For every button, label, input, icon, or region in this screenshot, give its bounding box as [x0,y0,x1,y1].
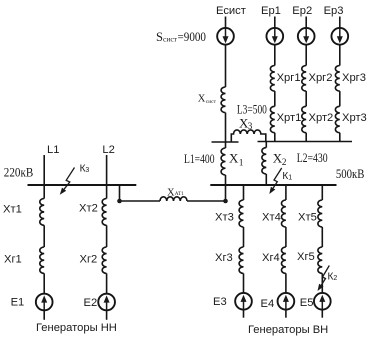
svg-text:Хрт1: Хрт1 [277,112,302,124]
svg-text:=9000: =9000 [178,30,207,44]
source Ер1 circle [266,28,283,45]
svg-text:АТ1: АТ1 [175,191,184,197]
generator Е5 circle [314,293,331,310]
wire Хсист to node [225,113,227,142]
junction dot AT left [117,199,122,204]
fault К3 lightning [64,168,74,190]
svg-text:Ер3: Ер3 [324,5,344,17]
transformer reactance Хт4 [282,200,286,227]
generator Е1 circle [36,294,53,311]
transformer reactance Хт1 [40,199,44,226]
wire AT left [120,200,161,202]
arrow in Е4 [285,300,287,309]
wire Хг3 to Е3 [243,273,245,292]
arrow in Ер2 [305,28,307,37]
transformer reactance Хт2 [102,199,106,226]
wire Хт5-Хг5 [321,227,323,247]
svg-text:сист: сист [163,35,178,44]
svg-text:К2: К2 [328,272,338,283]
wire Хт4-Хг4 [285,227,287,247]
svg-text:Ер1: Ер1 [261,5,281,17]
arrow in Е2 [106,301,108,310]
arrow in Е5 [321,300,323,309]
wire Хг5 to Е5 [321,273,323,292]
wire bus500 drop to AT [225,185,227,201]
reactor Хрт2 [302,106,306,132]
wire line L2 [106,155,108,199]
svg-text:Хт1: Хт1 [3,204,22,216]
arrow in Есист [225,28,227,37]
wire Хг1 to Е1 [43,273,45,293]
svg-text:К1: К1 [282,171,292,182]
node M (left) [212,141,239,143]
svg-text:3: 3 [248,122,253,132]
bus 220кВ [28,184,137,186]
generator Е2 circle [98,294,115,311]
svg-text:Хрг3: Хрг3 [342,72,366,84]
reactor Хрг1 [270,66,274,92]
wire X2 top [265,142,267,148]
generator reactance Хг3 [239,247,243,273]
generator Е4 circle [278,293,295,310]
svg-text:L1: L1 [47,144,59,156]
arrow in Е1 [43,301,45,310]
generator Е3 circle [235,293,252,310]
transformer reactance Хт3 [239,200,243,227]
svg-text:Хт4: Хт4 [262,212,281,224]
wire Хрг2-Хрт2 [305,91,307,106]
wire Хт1-Хг1 [43,225,45,247]
svg-text:Хрг2: Хрг2 [309,72,333,84]
svg-text:Хрт3: Хрт3 [342,112,367,124]
svg-text:Хрт2: Хрт2 [309,112,334,124]
svg-text:Ер2: Ер2 [292,5,312,17]
wire AT right [187,200,226,202]
reactor Хсист [221,87,225,113]
svg-text:Х: Х [229,151,239,166]
wire Ер3 to Хрг3 [339,45,341,66]
svg-text:2: 2 [282,158,287,168]
wire Е3 stub [243,310,245,318]
fault К1 lightning [273,168,282,188]
generator reactance Хг4 [281,247,285,273]
wire Ер1 to Хрг1 [274,45,276,66]
wire Е2 stub [106,311,108,320]
reactor X3 bridge [231,130,265,142]
wire X1 top [225,142,227,148]
wire Хрт2 to node [305,133,307,142]
node N (right) [258,141,353,143]
svg-text:Хт5: Хт5 [298,212,317,224]
generator reactance Хг2 [102,247,106,273]
wire Ер2 to Хрг2 [305,45,307,66]
wire Ер3 stub [339,17,341,28]
wire Хт3 top [243,185,245,200]
arrow in Ер3 [339,28,341,37]
wire Хт5 top [321,185,323,200]
svg-text:1: 1 [239,159,244,169]
fault К2 lightning [321,266,329,286]
svg-text:сист: сист [206,99,217,105]
svg-text:Хг5: Хг5 [297,251,315,263]
wire Ер2 stub [305,17,307,28]
wire Хт2-Хг2 [106,225,108,247]
wire Хрг3-Хрт3 [339,91,341,106]
wire Хрг1-Хрт1 [274,91,276,106]
wire Есист stub [225,17,227,28]
autotransformer reactance ХАТ1 [160,197,187,201]
wire Хг2 to Е2 [106,273,108,293]
svg-text:L2=430: L2=430 [297,151,328,165]
svg-text:Генераторы НН: Генераторы НН [36,322,117,334]
wire Хт4 top [285,185,287,200]
svg-text:S: S [156,30,163,44]
wire Е4 stub [285,310,287,318]
svg-text:Е2: Е2 [84,297,98,309]
junction dot AT right [223,199,228,204]
wire Е1 stub [43,311,45,320]
svg-text:220кВ: 220кВ [4,166,34,180]
svg-text:Х: Х [198,94,206,105]
svg-text:Хг4: Хг4 [262,252,280,264]
svg-text:Е1: Е1 [11,297,25,309]
svg-text:Генераторы ВН: Генераторы ВН [248,324,328,336]
wire Хрт1 to node [274,133,276,142]
svg-text:L2: L2 [102,144,114,156]
svg-text:Е5: Е5 [300,297,314,309]
wire Хг4 to Е4 [285,273,287,292]
bus 500кВ [210,184,336,186]
wire AT stub from 220 bus [119,185,121,201]
wire X1 to bus [225,175,227,185]
wire Е5 stub [321,310,323,318]
svg-text:Есист: Есист [216,5,246,17]
reactor X1 [221,148,225,175]
source Ер2 circle [298,28,315,45]
source Ер3 circle [331,28,348,45]
generator reactance Хг5 [318,247,322,273]
wire Хт3-Хг3 [243,227,245,247]
arrow in Е3 [243,300,245,309]
reactor Хрг3 [335,66,339,92]
reactor Хрт1 [270,106,274,132]
generator reactance Хг1 [40,247,44,273]
svg-text:Е3: Е3 [213,296,227,308]
svg-text:Е4: Е4 [261,298,275,310]
wire line L1 [43,155,45,199]
svg-text:Х: Х [167,188,175,199]
svg-text:Хт2: Хт2 [79,203,98,215]
wire Хрт3 to node [339,133,341,142]
transformer reactance Хт5 [318,200,322,227]
svg-text:Хг2: Хг2 [80,254,98,266]
reactor X2 [262,148,266,174]
svg-text:Хг1: Хг1 [4,254,22,266]
svg-text:Хрг1: Хрг1 [277,72,301,84]
arrow in Ер1 [274,28,276,37]
svg-text:500кВ: 500кВ [336,167,365,181]
svg-text:L3=500: L3=500 [237,102,267,116]
svg-text:К3: К3 [80,164,90,175]
svg-text:L1=400: L1=400 [184,152,215,166]
svg-text:Хт3: Хт3 [215,212,234,224]
wire Ер1 stub [274,17,276,28]
reactor Хрг2 [302,66,306,92]
wire Есист to Хсист [225,45,227,87]
wire X2 to bus [265,174,267,185]
source Есист circle [217,28,234,45]
svg-text:Хг3: Хг3 [215,252,233,264]
reactor Хрт3 [335,106,339,132]
